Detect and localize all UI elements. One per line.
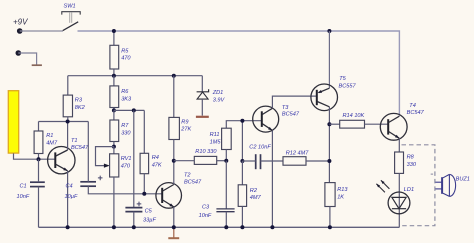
- wire C1 to rail: [38, 187, 40, 228]
- svg-text:RV1: RV1: [121, 156, 132, 162]
- resistor R11: [210, 128, 232, 149]
- svg-text:C5: C5: [145, 209, 153, 215]
- resistor R8: [395, 152, 417, 173]
- capacitor C2: [249, 144, 271, 169]
- svg-text:BC547: BC547: [282, 112, 300, 118]
- svg-text:R6: R6: [121, 89, 129, 95]
- wire rail down to T5 emitter: [328, 31, 330, 88]
- wire R2 to rail: [241, 206, 243, 227]
- svg-text:+9V: +9V: [13, 18, 28, 27]
- svg-text:R8: R8: [407, 155, 415, 161]
- svg-text:BC547: BC547: [184, 179, 202, 185]
- node R7/RV1 junction: [112, 145, 116, 149]
- svg-text:8K2: 8K2: [75, 105, 86, 111]
- wire R6 to junction: [113, 108, 115, 111]
- wire T1 collector: [67, 122, 69, 151]
- wire R12 to T5 column: [306, 160, 329, 162]
- transistor T4: [380, 103, 424, 140]
- wire T2 emitter: [173, 207, 175, 227]
- node rail T2 emitter: [172, 225, 176, 229]
- svg-text:R5: R5: [121, 48, 129, 54]
- node rail T3 emitter: [270, 225, 274, 229]
- wire R7 bottom: [113, 142, 115, 147]
- svg-text:10µF: 10µF: [65, 194, 78, 200]
- wire RV1 top: [113, 147, 115, 154]
- capacitor C5: [125, 202, 156, 224]
- wire R10 left: [174, 160, 195, 162]
- wire collector node line: [39, 121, 89, 123]
- svg-text:ZD1: ZD1: [212, 90, 224, 96]
- svg-text:SW1: SW1: [64, 4, 76, 10]
- wire T1 emitter to rail: [67, 171, 69, 228]
- LED LD1: [376, 180, 414, 214]
- svg-text:BC547: BC547: [407, 110, 425, 116]
- wire electrode to T1 base: [14, 153, 56, 159]
- wire T4 emitter to R8: [398, 138, 400, 152]
- svg-text:330: 330: [121, 130, 131, 136]
- wire R14 to T4 base: [365, 123, 389, 125]
- svg-text:330: 330: [407, 162, 417, 168]
- wire C5 branch down: [133, 110, 135, 207]
- wire RV1 to rail: [113, 177, 115, 227]
- wire bias rail y76: [68, 75, 203, 77]
- resistor R1: [34, 131, 58, 154]
- wire R9 top: [173, 76, 175, 118]
- svg-text:R11: R11: [210, 132, 220, 138]
- ground (T2 emitter): [168, 227, 179, 238]
- buzzer BUZ1: [431, 174, 470, 196]
- wire dashed buzzer branch: [402, 145, 435, 226]
- node R9 top: [172, 74, 176, 78]
- wire R3 to node: [67, 117, 69, 122]
- wire wiper link: [96, 147, 114, 166]
- wire rail to R5: [113, 31, 115, 45]
- resistor R6: [110, 86, 132, 108]
- wire +9V to switch: [20, 30, 63, 32]
- potentiometer RV1: [110, 154, 132, 177]
- svg-text:R7: R7: [121, 123, 129, 129]
- wire C4 to T2 base line: [88, 186, 162, 194]
- switch SW1: [62, 4, 80, 31]
- node T1 collector: [66, 120, 70, 124]
- svg-text:R1: R1: [46, 133, 53, 139]
- wire junction to R3: [67, 76, 69, 95]
- node T2 collector junction: [172, 159, 176, 163]
- svg-text:27K: 27K: [180, 127, 191, 133]
- resistor R10: [194, 149, 217, 164]
- node R1/base junction: [37, 157, 41, 161]
- wire R11 top link: [226, 121, 261, 129]
- wire R5 to junction: [113, 69, 115, 76]
- resistor R2: [238, 185, 261, 207]
- node R4/C4/T2 base: [142, 192, 146, 196]
- svg-text:R12 4M7: R12 4M7: [286, 151, 310, 157]
- svg-text:T2: T2: [184, 172, 191, 178]
- wire R4 top link: [143, 110, 145, 153]
- node rail T1 emitter: [66, 225, 70, 229]
- wire node to R1: [38, 122, 40, 132]
- wire R11 bottom: [225, 150, 227, 161]
- svg-text:4M7: 4M7: [250, 195, 262, 201]
- wire top rail: [78, 31, 400, 116]
- node T3 base junction: [240, 119, 244, 123]
- svg-text:C3: C3: [202, 204, 210, 210]
- svg-text:BC547: BC547: [71, 145, 89, 151]
- node top rail R5: [112, 29, 116, 33]
- wire node to C4: [87, 122, 89, 182]
- electrode (touch plate): [8, 91, 18, 153]
- svg-text:R3: R3: [75, 98, 83, 104]
- wire R2 top: [241, 161, 243, 185]
- wire C5 to rail: [133, 212, 135, 228]
- wire C3 to rail: [225, 212, 227, 228]
- resistor R13: [325, 183, 348, 207]
- wiper arrowhead: [104, 164, 110, 168]
- wire T3 emitter to rail: [271, 130, 273, 227]
- wire T3 collector to T5 base: [272, 96, 316, 108]
- svg-text:BC557: BC557: [339, 84, 357, 90]
- svg-text:C2 10nF: C2 10nF: [249, 144, 271, 150]
- svg-text:R10 330: R10 330: [195, 149, 217, 155]
- svg-text:1M5: 1M5: [210, 139, 222, 145]
- wire R7 top: [113, 110, 115, 120]
- svg-text:10nF: 10nF: [17, 194, 30, 200]
- resistor R7: [110, 120, 132, 142]
- svg-text:R4: R4: [152, 155, 159, 161]
- wire junction line y110: [114, 109, 144, 111]
- wire bottom rail: [39, 226, 400, 228]
- svg-text:BUZ1: BUZ1: [456, 176, 470, 182]
- node ground terminal: [15, 50, 21, 56]
- ground (ZD1): [196, 116, 209, 118]
- svg-text:T5: T5: [339, 76, 346, 82]
- node rail RV1: [112, 225, 116, 229]
- svg-text:3K3: 3K3: [121, 96, 132, 102]
- wire R8 to LED and rail: [398, 173, 400, 227]
- capacitor C1: [17, 182, 45, 200]
- svg-text:R9: R9: [181, 120, 188, 126]
- transistor T3: [253, 105, 300, 132]
- node R12 junction: [327, 159, 331, 163]
- wire junction to R6: [113, 76, 115, 86]
- svg-text:T3: T3: [282, 105, 289, 111]
- node rail R2: [240, 225, 244, 229]
- wire base to C1: [38, 159, 40, 182]
- resistor R12: [283, 151, 309, 166]
- node R10/R11/C2/C3: [224, 159, 228, 163]
- svg-text:R14 10K: R14 10K: [343, 113, 365, 119]
- transistor T1: [48, 138, 89, 174]
- svg-text:R13: R13: [337, 187, 348, 193]
- resistor R14: [340, 113, 365, 128]
- resistor R3: [63, 95, 85, 117]
- svg-text:4M7: 4M7: [46, 140, 58, 146]
- node rail C3: [224, 225, 228, 229]
- svg-text:T1: T1: [71, 138, 78, 144]
- svg-text:C1: C1: [20, 183, 27, 189]
- capacitor C4: [65, 176, 103, 200]
- svg-text:470: 470: [121, 56, 131, 62]
- wire C3 top: [225, 161, 227, 209]
- node R5/R6 junction: [112, 74, 116, 78]
- wire R14 left: [329, 123, 339, 125]
- wire C2 to R12: [261, 160, 284, 162]
- node R14 branch: [327, 122, 331, 126]
- resistor R9: [169, 117, 192, 139]
- node rail to T5: [327, 29, 331, 33]
- node C5 branch: [132, 108, 136, 112]
- wire R10 right: [217, 160, 227, 162]
- node rail R13: [328, 225, 332, 229]
- svg-text:1K: 1K: [337, 194, 344, 200]
- capacitor C3: [199, 204, 235, 219]
- wire node to C2: [242, 160, 255, 162]
- svg-text:470: 470: [121, 163, 131, 169]
- wire terminal to ground: [18, 53, 36, 65]
- resistor R5: [110, 45, 132, 69]
- wire R4 to T2 base: [143, 174, 145, 194]
- zener ZD1: [197, 76, 226, 116]
- node R2 top: [240, 159, 244, 163]
- wire T2 collector: [173, 161, 175, 185]
- wire T5 collector column: [328, 107, 330, 183]
- transistor T2: [156, 172, 202, 208]
- svg-text:10nF: 10nF: [199, 213, 212, 219]
- svg-text:47K: 47K: [152, 162, 162, 168]
- wire R9 bottom: [173, 140, 175, 161]
- wire R1 to base line: [38, 154, 40, 160]
- svg-text:C4: C4: [66, 183, 73, 189]
- node R6/R7 junction: [112, 108, 116, 112]
- svg-text:LD1: LD1: [404, 187, 414, 193]
- svg-text:33µF: 33µF: [143, 218, 156, 224]
- wire T3 base to C2 node: [241, 121, 243, 161]
- svg-text:R2: R2: [250, 188, 258, 194]
- svg-text:3.9V: 3.9V: [213, 98, 226, 104]
- resistor R4: [140, 153, 162, 173]
- svg-text:T4: T4: [409, 103, 416, 109]
- transistor T5: [311, 76, 357, 111]
- wire R13 to rail: [329, 207, 331, 228]
- ground (top left): [32, 64, 42, 66]
- node rail C5: [132, 225, 136, 229]
